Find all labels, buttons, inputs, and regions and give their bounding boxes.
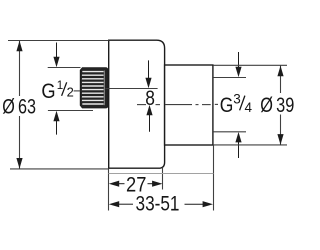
Ø63 bottom arrow: [16, 158, 22, 169]
8 bottom arrow: [149, 115, 151, 132]
knurled union nut G1/2: [80, 68, 108, 108]
svg-text:33-51: 33-51: [136, 191, 180, 215]
G1/2 top arrow: [56, 43, 58, 59]
svg-text:4: 4: [245, 100, 253, 115]
Ø39 dimension line: [280, 66, 282, 94]
svg-text:3: 3: [233, 92, 241, 107]
outlet cylinder G3/4 (Ø39): [165, 65, 213, 145]
svg-text:G: G: [220, 93, 234, 117]
33-51 right extension line: [213, 145, 215, 211]
G1/2 top extension line: [48, 67, 81, 69]
Ø39 bottom extension line: [213, 144, 287, 146]
27 right extension line: [162, 168, 164, 190]
G3/4 top extension line: [213, 77, 246, 79]
27 dimension: [117, 183, 125, 185]
bottom-left extension line (face): [108, 169, 110, 211]
svg-text:2: 2: [67, 86, 74, 100]
Ø63 top extension line: [8, 40, 109, 42]
Ø63 top arrow: [16, 41, 22, 52]
Ø39 top extension line: [213, 64, 287, 66]
escutcheon body (Ø63 flange): [109, 40, 165, 168]
svg-text:1: 1: [57, 79, 63, 92]
Ø63 dimension line: [19, 41, 21, 97]
8 top arrow: [148, 60, 150, 78]
label Ø63: [1, 97, 37, 115]
33-51 dimension: [117, 203, 133, 205]
faint wall reference line: [109, 173, 214, 175]
Ø39 top arrow: [277, 66, 283, 77]
centerline (G3/4 axis, dash-dot): [137, 103, 218, 105]
label Ø39: [259, 96, 296, 114]
G1/2 bottom extension line: [48, 110, 93, 112]
G1/2 bottom arrow: [56, 120, 58, 135]
G3/4 bottom extension line: [213, 131, 246, 133]
Ø39 bottom arrow: [277, 134, 283, 145]
svg-text:8: 8: [145, 86, 155, 110]
svg-text:G: G: [41, 79, 55, 103]
G1/2 leader dash: [74, 90, 81, 92]
G3/4 top arrow: [238, 52, 240, 68]
Ø63 bottom extension line: [10, 168, 109, 170]
8-offset upper reference line (G1/2 axis): [105, 88, 157, 90]
G3/4 bottom arrow: [238, 142, 240, 159]
svg-text:Ø 39: Ø 39: [260, 93, 294, 117]
svg-text:Ø 63: Ø 63: [2, 95, 36, 119]
